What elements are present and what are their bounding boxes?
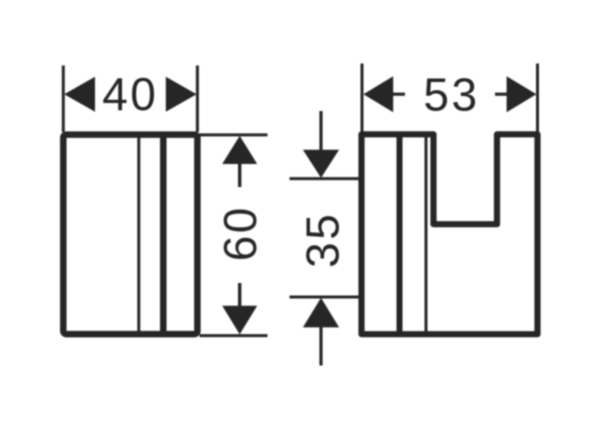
svg-text:35: 35 bbox=[297, 212, 349, 268]
dim 60 extension lines bbox=[200, 133, 268, 136]
dim 35 arrow tails bbox=[319, 111, 322, 151]
dim 35 extension lines bbox=[290, 177, 360, 180]
dim 53 right arrowhead bbox=[507, 76, 537, 112]
front view thick internal line bbox=[160, 136, 167, 334]
dim 40 right arrowhead bbox=[166, 77, 197, 112]
front view outer rectangle bbox=[63, 135, 197, 335]
dim 40 left arrowhead bbox=[64, 77, 95, 112]
dim 60 down arrowhead bbox=[222, 306, 257, 335]
dim 35 down arrowhead bbox=[303, 150, 339, 178]
dim 35 up arrowhead bbox=[303, 298, 339, 328]
side view outline with U notch bbox=[362, 134, 538, 334]
svg-text:53: 53 bbox=[423, 68, 479, 120]
dim 53 arrow tails bbox=[392, 93, 405, 96]
side view thin internal line bbox=[425, 136, 428, 334]
svg-text:40: 40 bbox=[102, 68, 158, 120]
side view thick internal line bbox=[397, 136, 403, 334]
dim 40 extension lines bbox=[62, 66, 65, 133]
svg-text:60: 60 bbox=[214, 205, 266, 261]
dim 53 left arrowhead bbox=[363, 76, 393, 112]
front view thin internal line bbox=[137, 136, 140, 334]
dim 60 up arrowhead bbox=[222, 136, 257, 164]
dim 60 arrow tails bbox=[238, 163, 241, 187]
dim 53 extension lines bbox=[361, 64, 364, 133]
